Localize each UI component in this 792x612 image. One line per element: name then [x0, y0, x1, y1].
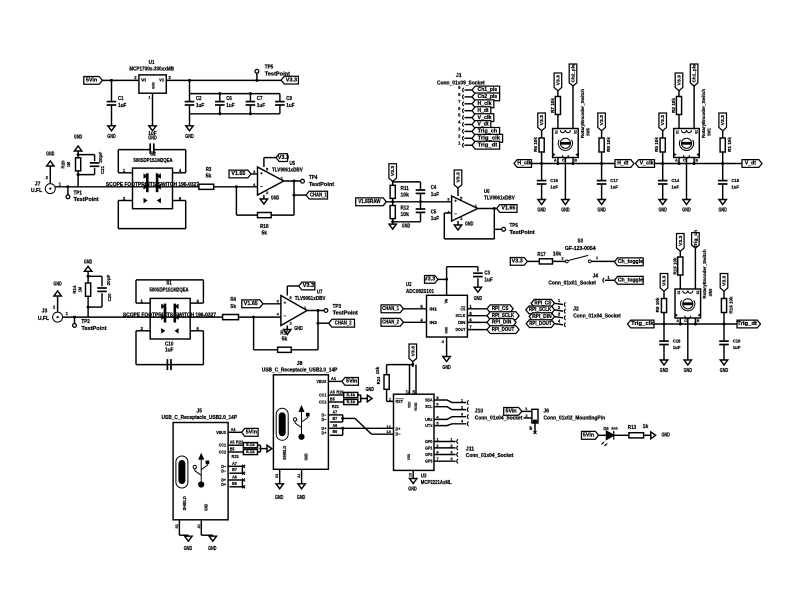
svg-text:+: + [454, 199, 457, 204]
svg-text:R2 10k: R2 10k [671, 98, 676, 113]
ground J7 [46, 152, 55, 167]
net label V1.65RAW [356, 198, 387, 206]
svg-text:GND: GND [366, 387, 375, 393]
svg-text:SCLK: SCLK [456, 313, 467, 318]
svg-text:C15: C15 [731, 178, 739, 183]
svg-text:1uF: 1uF [673, 345, 681, 350]
ground U5 [260, 196, 279, 205]
svg-text:1uF: 1uF [731, 185, 739, 190]
test point TP3 [324, 304, 358, 317]
wire U3 SDA to J10 pin 1 [425, 395, 469, 405]
svg-text:GP0: GP0 [425, 439, 433, 444]
svg-text:J10: J10 [475, 408, 484, 414]
svg-text:R14: R14 [72, 285, 78, 293]
svg-text:16: 16 [412, 390, 416, 394]
svg-text:GP1: GP1 [425, 445, 433, 450]
svg-text:GND: GND [682, 208, 691, 214]
wire U2 pin 8 to RPI_SCLK [467, 311, 487, 316]
svg-text:VDD: VDD [408, 401, 412, 408]
svg-text:GND: GND [442, 365, 451, 371]
svg-text:TestPoint: TestPoint [74, 197, 100, 203]
svg-text:V3.3: V3.3 [720, 115, 725, 126]
svg-text:Amb: Amb [611, 427, 618, 431]
wire U7 V+ pin [287, 286, 298, 296]
svg-text:GND: GND [294, 326, 303, 332]
svg-text:VBUS: VBUS [216, 430, 226, 435]
ground SW6 C [684, 360, 693, 374]
power label V3.3 on rail [281, 76, 298, 84]
wire U3 UTx to J10 pin 4 [425, 419, 469, 428]
text U6 name [484, 189, 515, 202]
svg-text:RotaryEncoder_Switch: RotaryEncoder_Switch [701, 89, 706, 139]
svg-text:R11: R11 [401, 186, 410, 192]
wire V1.65 ch2 stub [263, 303, 281, 305]
svg-text:+: + [284, 301, 287, 306]
junction U6 output [493, 207, 496, 210]
wire SW6 B pin [694, 318, 697, 326]
svg-text:B7: B7 [332, 416, 337, 421]
wire SW1 A pin [678, 158, 681, 166]
capacitor C21 20pF [78, 152, 106, 175]
wire V3.3 to Va [438, 267, 478, 296]
svg-text:A5: A5 [330, 389, 335, 394]
svg-text:SCL: SCL [425, 404, 433, 409]
wire C2 bank top [190, 80, 280, 93]
svg-text:GND: GND [444, 327, 449, 334]
svg-text:C18: C18 [673, 339, 681, 344]
svg-text:R3: R3 [206, 167, 212, 173]
resistor R24 10k [375, 365, 389, 402]
ground J5 S1 [184, 536, 193, 552]
svg-text:GND: GND [659, 208, 668, 214]
svg-text:GND: GND [660, 368, 669, 374]
svg-text:5Vin: 5Vin [246, 430, 257, 436]
svg-text:GND: GND [275, 495, 284, 501]
wire U6 output [478, 208, 496, 210]
connector J1 pin 9 net Ch1_pls [458, 85, 499, 94]
svg-text:V3.3: V3.3 [722, 275, 727, 286]
svg-text:SHIELD: SHIELD [182, 496, 187, 510]
svg-text:S1: S1 [677, 291, 681, 295]
junction U7 output [317, 309, 320, 312]
USB-C icon J5 [176, 456, 188, 488]
capacitor C16 1uF [537, 164, 559, 200]
feedback wire ch1 [236, 187, 294, 215]
wire J8 VBUS [317, 376, 342, 384]
svg-text:MCP1700x-330xxMB: MCP1700x-330xxMB [129, 67, 174, 73]
svg-text:B7: B7 [232, 467, 237, 472]
wire U3 GP2 to J11 pin 3 [425, 449, 458, 457]
svg-text:C17: C17 [610, 178, 618, 183]
junction feedback ch2 [252, 316, 255, 319]
svg-text:USB_C_Receptacle_USB2.0_14P: USB_C_Receptacle_USB2.0_14P [162, 415, 238, 421]
svg-text:C: C [562, 158, 565, 162]
wire U6 V+ pin [457, 188, 459, 196]
svg-text:MCP2221AxML: MCP2221AxML [421, 480, 452, 486]
ground J5 CC [267, 445, 272, 452]
capacitor C6 [215, 94, 235, 114]
svg-text:GND: GND [53, 282, 62, 288]
power label V3.3 at U2 [424, 276, 438, 284]
svg-text:C5: C5 [431, 209, 437, 215]
svg-text:R4: R4 [230, 297, 236, 303]
svg-text:TLV9061xDBV: TLV9061xDBV [484, 196, 515, 202]
switch S2 top bracket with shield cap [118, 143, 185, 153]
wire encoder SW6 bus [654, 323, 737, 325]
USB trident icon J8 [293, 405, 309, 440]
net label H_clk [514, 160, 532, 168]
junction R20 top [77, 153, 80, 176]
svg-text:C: C [683, 158, 686, 162]
wire J5 CC2 [219, 446, 244, 459]
connector J1 pin 6 net H_dt [458, 106, 491, 115]
connector J1 title [437, 73, 485, 87]
svg-text:TP6: TP6 [510, 223, 519, 229]
wire R17 to S3 [553, 260, 566, 262]
svg-text:1M: 1M [66, 162, 72, 167]
svg-text:10k: 10k [375, 366, 380, 374]
svg-text:H_dt: H_dt [617, 161, 629, 167]
connector J5 USB_C_Receptacle title [162, 409, 238, 421]
net label CHAN_1 [306, 191, 328, 199]
svg-text:TP4: TP4 [309, 175, 318, 181]
svg-text:TestPoint: TestPoint [81, 326, 107, 332]
connector J10 title [475, 408, 523, 421]
svg-text:Conn_01x02_MountingPin: Conn_01x02_MountingPin [544, 415, 606, 421]
wire U3 GP1 to J11 pin 2 [425, 443, 458, 451]
svg-text:1uF: 1uF [671, 185, 679, 190]
svg-text:V3.3: V3.3 [662, 275, 667, 286]
svg-text:CC1: CC1 [319, 393, 327, 398]
wire R3 to U5 [214, 186, 258, 188]
net label V_clk [636, 160, 655, 168]
resistor R4 5k [223, 297, 239, 320]
svg-text:GND: GND [408, 487, 417, 493]
ground J5 A1 [208, 536, 217, 552]
svg-text:C19: C19 [733, 339, 741, 344]
svg-text:5k: 5k [262, 230, 268, 236]
power label V3.3 R1 [719, 113, 727, 131]
wire U2 GND pin [442, 337, 447, 357]
svg-text:V3.3: V3.3 [512, 259, 523, 265]
LED D5 [602, 426, 619, 446]
svg-text:S1: S1 [274, 473, 279, 478]
svg-text:Conn_01x01_Socket: Conn_01x01_Socket [548, 280, 596, 286]
svg-text:R13: R13 [628, 425, 637, 431]
wire U2 pin 6 to RPI_DIN [467, 318, 487, 323]
power label V3.3 R2 [675, 73, 683, 91]
svg-text:SW1: SW1 [707, 128, 712, 136]
resistor R5 10k [654, 131, 665, 165]
svg-text:Conn_01x04_Socket: Conn_01x04_Socket [466, 453, 514, 459]
svg-text:C2: C2 [196, 96, 202, 102]
wire U5 output [284, 180, 301, 182]
svg-text:GND: GND [148, 136, 157, 142]
capacitor C14 1uF [658, 164, 680, 200]
connector J11 title [466, 446, 514, 459]
power label 5Vin J8 [342, 378, 359, 386]
svg-text:GND: GND [684, 368, 693, 374]
connector J6 body [532, 408, 605, 423]
svg-text:H_clk: H_clk [478, 101, 492, 107]
regulator U1 MCP1700 [129, 60, 174, 93]
svg-text:D5: D5 [603, 426, 609, 431]
svg-text:GND: GND [537, 208, 546, 214]
svg-text:IN2: IN2 [430, 320, 438, 325]
wire C2 bank bottom bus [190, 114, 280, 126]
svg-text:V1.65RAW: V1.65RAW [358, 199, 381, 205]
wire TP6 [494, 209, 501, 239]
svg-text:R16 10k: R16 10k [728, 296, 733, 314]
ground U1 [149, 126, 156, 131]
svg-text:Ch2_pls: Ch2_pls [571, 64, 576, 82]
svg-text:TestPoint: TestPoint [510, 230, 536, 236]
wire J6 MP pin [529, 423, 537, 434]
svg-text:S2: S2 [150, 152, 156, 158]
svg-text:Ch2_pls: Ch2_pls [478, 94, 498, 100]
svg-text:5Vin: 5Vin [86, 78, 97, 84]
svg-text:5k: 5k [230, 304, 236, 310]
svg-text:10k: 10k [401, 212, 410, 218]
svg-text:J5: J5 [197, 409, 203, 415]
power label V3.3 at U3 [409, 344, 417, 362]
wire J5 VBUS [216, 427, 241, 435]
resistor R15 10k [673, 251, 683, 289]
svg-text:V3.3: V3.3 [539, 115, 544, 126]
wire SW5 A pin [556, 158, 559, 166]
svg-text:5Vin: 5Vin [506, 409, 517, 415]
svg-text:GND: GND [184, 546, 193, 552]
svg-text:GND: GND [597, 208, 606, 214]
svg-text:1M: 1M [78, 287, 84, 292]
wire SW1 C pin [686, 158, 688, 200]
svg-text:S2: S2 [695, 130, 699, 134]
svg-text:R9 10k: R9 10k [655, 297, 660, 312]
net label RPI_CS at J2 [531, 299, 554, 307]
svg-text:J1: J1 [456, 73, 462, 79]
svg-text:Ch_toggle: Ch_toggle [618, 259, 643, 265]
wire SW1 B pin [693, 158, 696, 166]
wire J5 CC join [258, 445, 268, 452]
capacitor C18 1uF [659, 324, 681, 360]
svg-text:R7 10k: R7 10k [550, 98, 555, 113]
capacitor C7 [246, 94, 266, 114]
net label Ch_toggle J4 [614, 276, 643, 284]
svg-text:1uF: 1uF [610, 185, 618, 190]
svg-text:C20: C20 [107, 293, 113, 301]
svg-text:Trig_clk: Trig_clk [478, 136, 501, 142]
svg-text:URx: URx [425, 417, 433, 422]
svg-text:R22: R22 [236, 440, 244, 445]
op-amp U5 TLV9061xDBV [253, 167, 284, 195]
svg-text:GND: GND [720, 368, 729, 374]
wire 5Vin to U1 pin2 [102, 79, 138, 81]
svg-text:1uF: 1uF [226, 103, 234, 109]
svg-text:V3.3: V3.3 [278, 155, 289, 161]
svg-text:U3: U3 [421, 473, 427, 479]
wire U3 SCL to J10 pin 2 [425, 402, 469, 412]
wire SW5 C pin [564, 158, 566, 200]
svg-text:CS: CS [461, 306, 466, 311]
resistor R7 10k [550, 91, 560, 129]
svg-text:VI: VI [141, 78, 146, 83]
svg-text:GND: GND [297, 495, 306, 501]
svg-text:−: − [260, 184, 263, 189]
svg-text:J2: J2 [573, 306, 579, 312]
svg-text:GP3: GP3 [425, 459, 433, 464]
connector J5 body [173, 423, 228, 520]
resistor R17 10k [537, 251, 561, 264]
wire U5 GND pin [263, 195, 265, 199]
svg-text:C4: C4 [431, 185, 437, 191]
wire U3 VSS [412, 470, 414, 478]
capacitor C2 [185, 94, 205, 114]
capacitor C19 1uF [719, 324, 741, 360]
svg-text:S3: S3 [578, 239, 584, 245]
svg-text:S1: S1 [554, 130, 558, 134]
svg-text:H_clk: H_clk [517, 161, 531, 167]
power label V3.3 R9 [660, 274, 668, 292]
svg-text:J8: J8 [297, 361, 303, 367]
svg-text:J7: J7 [35, 182, 41, 188]
power label V3.3 U5 [276, 154, 289, 162]
svg-text:500SDP1S1M2QEA: 500SDP1S1M2QEA [149, 287, 189, 293]
resistor R18 5k [258, 213, 272, 237]
net label RPI_CS at U2 [487, 305, 513, 313]
svg-text:J6: J6 [544, 408, 550, 414]
wire SW6 C pin [687, 318, 689, 360]
wire J5 D- pins A7 B7 [221, 461, 242, 474]
feedback wire ch2 [254, 317, 318, 350]
svg-text:TP1: TP1 [74, 190, 83, 196]
capacitor C8 [275, 94, 295, 114]
svg-text:CHAN_2: CHAN_2 [335, 320, 352, 326]
net label Trig_ch [692, 230, 700, 249]
svg-text:5Vin: 5Vin [346, 379, 357, 385]
svg-text:C1: C1 [118, 96, 124, 102]
svg-text:GF-123-0054: GF-123-0054 [565, 246, 596, 252]
wire U2 pin 1 to RPI_CS [467, 304, 487, 309]
svg-text:CHAN_1: CHAN_1 [310, 192, 327, 198]
svg-text:Trig_clk: Trig_clk [631, 321, 654, 327]
test point TP1 [66, 185, 99, 203]
svg-text:A6: A6 [232, 475, 237, 480]
svg-text:B5: B5 [330, 396, 335, 401]
svg-text:1uF: 1uF [286, 103, 294, 109]
svg-text:20pF: 20pF [98, 152, 104, 163]
capacitor C3 [473, 267, 493, 288]
USB-C icon J8 [276, 408, 288, 440]
power label 5Vin J5 [242, 428, 259, 436]
wire J8 S1 pin [274, 469, 280, 484]
svg-text:R24: R24 [376, 376, 381, 384]
connector J2 pin 1 [555, 298, 566, 307]
wire J5 D+ pins A6 B6 [221, 475, 242, 488]
text J5 SHIELD GND [182, 496, 209, 511]
svg-text:A4: A4 [331, 376, 336, 381]
connector J7 U.FL [31, 175, 62, 194]
svg-text:B: B [574, 158, 577, 162]
svg-text:1uF: 1uF [118, 103, 126, 109]
svg-text:13: 13 [386, 429, 391, 434]
connector J2 pin 2 [555, 305, 566, 314]
resistor R9 10k [655, 291, 666, 325]
svg-text:V3.3: V3.3 [390, 165, 395, 176]
svg-text:SW6: SW6 [708, 288, 713, 296]
wire J5 CC1 [219, 440, 244, 448]
svg-text:10k: 10k [553, 251, 562, 257]
svg-text:CHAN_2: CHAN_2 [382, 320, 399, 326]
connector J1 pin 3 net Trig_ch [458, 127, 499, 136]
svg-text:R23: R23 [232, 454, 240, 459]
svg-text:B: B [695, 158, 698, 162]
svg-text:SCOPE FOOTPRINTS:SWITCH 196-03: SCOPE FOOTPRINTS:SWITCH 196-0327 [123, 312, 216, 318]
svg-text:Ch_toggle: Ch_toggle [618, 278, 643, 284]
IC U2 ADC082S101 [406, 282, 467, 337]
svg-text:Conn_01x04_Socket: Conn_01x04_Socket [475, 415, 523, 421]
wire encoder SW1 bus [655, 163, 743, 165]
ground C17 [597, 200, 606, 214]
power label V3.3 R8 [598, 113, 606, 131]
wire Ch2_pls to S2 [572, 86, 574, 129]
svg-text:TestPoint: TestPoint [333, 311, 359, 317]
svg-text:CC1: CC1 [219, 443, 227, 448]
resistor R3 5k [199, 167, 214, 190]
svg-text:−: − [454, 212, 457, 217]
text SW1 labels [701, 89, 712, 139]
svg-text:TP5: TP5 [265, 64, 274, 70]
test point TP5 [255, 64, 290, 82]
svg-text:S2: S2 [574, 130, 578, 134]
resistor R22 5.1k [243, 443, 257, 448]
connector J1 pin 7 net H_clk [458, 99, 494, 108]
svg-text:TP3: TP3 [333, 304, 342, 310]
svg-text:A1: A1 [296, 473, 301, 478]
net label RPI_SCLK at J2 [526, 306, 555, 314]
svg-text:Trig_ch: Trig_ch [693, 230, 698, 248]
junction U5 output [293, 180, 296, 183]
wire 5Vin to D5 [599, 434, 607, 436]
svg-text:10k: 10k [401, 193, 410, 199]
svg-text:TLV9061xDBV: TLV9061xDBV [295, 296, 326, 302]
svg-text:S1: S1 [174, 523, 179, 528]
op-amp U6 TLV9061xDBV [447, 196, 478, 221]
svg-text:GND: GND [84, 260, 93, 266]
wire U2 pin 7 to RPI_DOUT [467, 325, 487, 330]
op-amp U7 TLV9061xDBV [277, 295, 308, 325]
test point TP2 [73, 316, 107, 332]
wire channel2 main [63, 316, 223, 318]
ground C1 [107, 126, 116, 140]
net label RPI_DOUT at U2 [487, 326, 519, 334]
wire J5 S1 pin [174, 520, 189, 536]
wire J6 pin2 [524, 413, 532, 418]
connector J1 pin 5 net V_clk [458, 113, 494, 122]
net label Trig_dt [737, 320, 761, 328]
svg-text:U2: U2 [406, 282, 412, 288]
svg-text:CC2: CC2 [319, 400, 327, 405]
svg-text:GND: GND [107, 134, 116, 140]
svg-text:GND: GND [271, 196, 280, 202]
text U3 name [421, 473, 452, 486]
power label V3.3 R7 [554, 73, 562, 91]
svg-text:GND: GND [402, 224, 411, 230]
svg-text:RPI_DIN: RPI_DIN [492, 320, 512, 326]
svg-text:1uF: 1uF [550, 185, 558, 190]
IC U3 MCP2221AxML body [386, 390, 434, 477]
wire J3 pin2 to GND [57, 296, 59, 312]
svg-text:R17: R17 [537, 252, 546, 258]
